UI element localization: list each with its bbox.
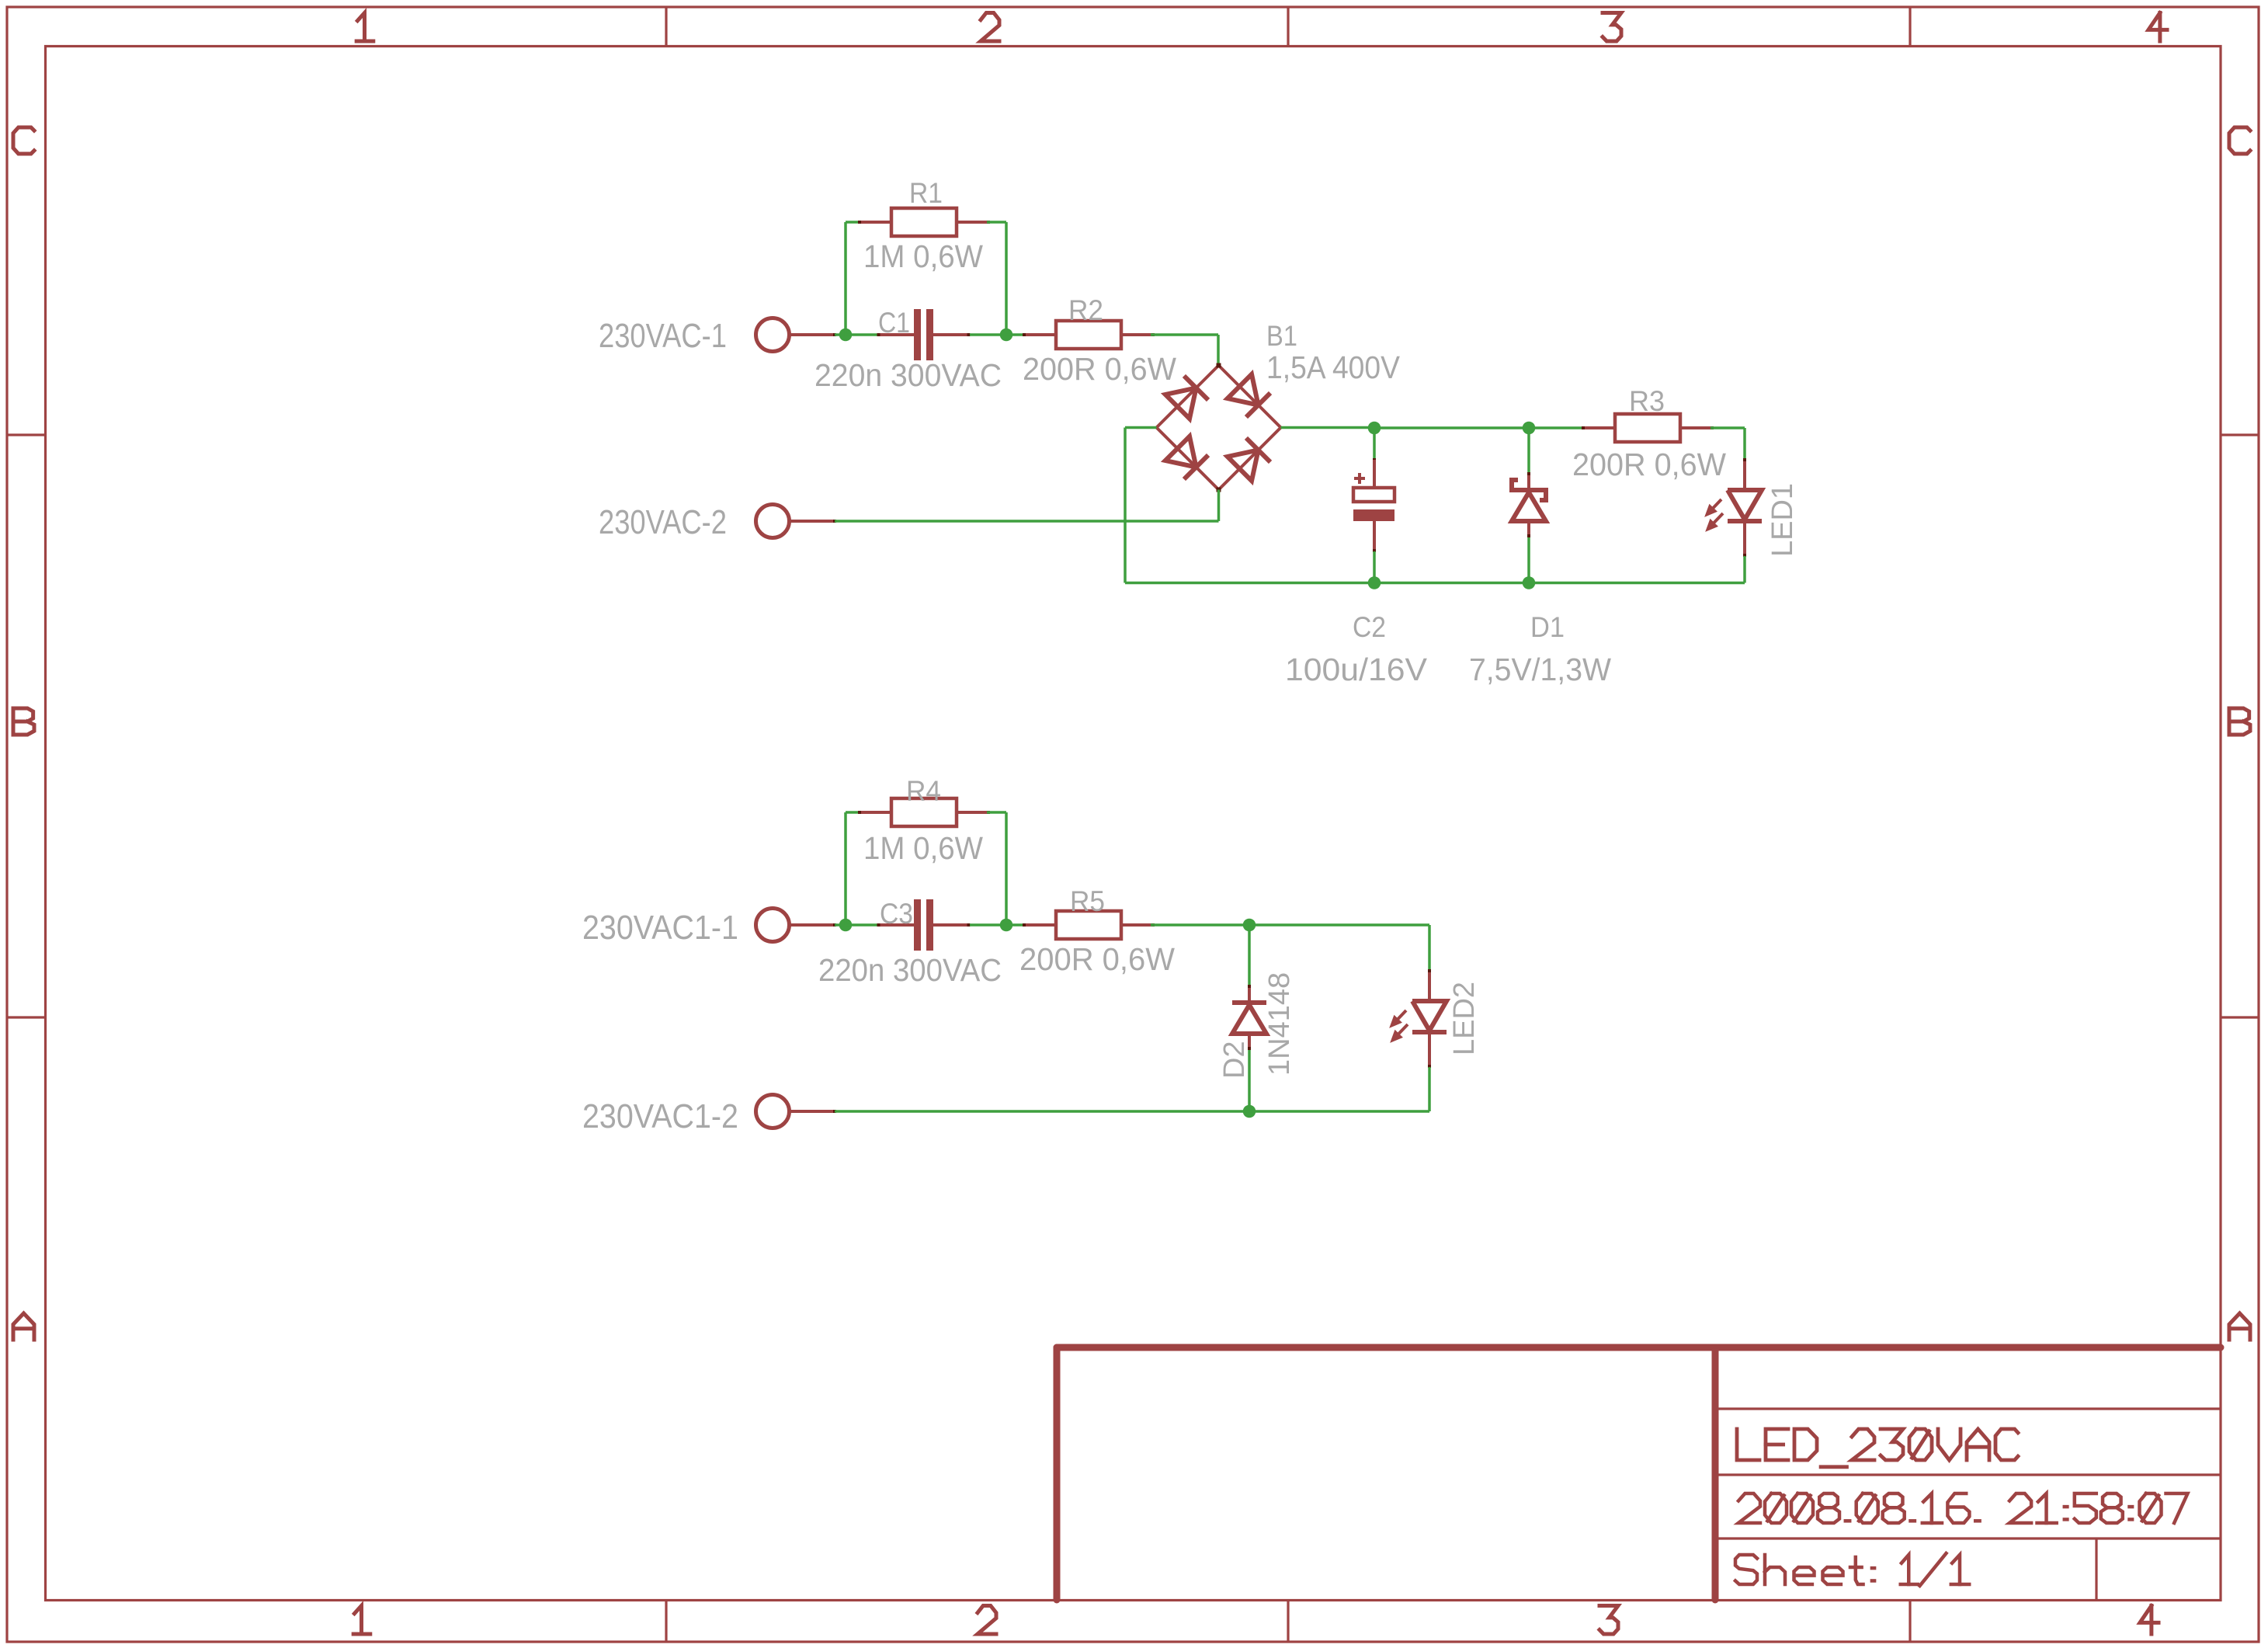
svg-text:200R 0,6W: 200R 0,6W [1019,941,1175,977]
wire up into bridge AC2 [1217,490,1221,522]
svg-text:230VAC-2: 230VAC-2 [599,503,727,541]
wire node G to LED2 corner [1249,923,1429,927]
D1 value label 7,5V/1,3W [1469,652,1611,687]
svg-text:LED1: LED1 [1766,483,1799,557]
svg-text:C2: C2 [1353,611,1386,643]
wire LED1 riser [1743,428,1746,460]
wire R3 to LED1 corner [1711,426,1745,429]
wire node B to R2 [1006,333,1025,336]
title block drawing name LED_230VAC [1737,1429,2018,1467]
resistor R2 [1023,321,1155,349]
svg-text:LED2: LED2 [1448,982,1481,1055]
svg-text:R2: R2 [1068,294,1103,326]
wire bridge plus to node C [1281,426,1375,429]
LED1 name label [1766,483,1799,557]
R4 value label 1M 0,6W [863,830,983,866]
svg-text:1M 0,6W: 1M 0,6W [863,830,983,866]
node B junction [1000,329,1013,342]
node A junction [839,329,853,342]
svg-text:R4: R4 [906,775,941,807]
wire down into bridge AC1 [1217,335,1220,365]
wire C1 to node B [970,333,1006,336]
wire R5 to node G [1151,923,1249,927]
wire left riser down [1124,428,1127,583]
title block sheet number Sheet: 1/1 [1735,1553,1969,1586]
R1 value label 1M 0,6W [863,238,983,274]
connector pad 230VAC1-2 [756,1095,837,1128]
svg-text:230VAC-1: 230VAC-1 [599,317,727,355]
svg-text:200R 0,6W: 200R 0,6W [1023,351,1176,387]
net label 230VAC-2 [599,503,727,541]
wire R4 to right riser [987,811,1006,814]
LED LED2 [1390,969,1447,1068]
svg-text:230VAC1-2: 230VAC1-2 [582,1097,738,1135]
D2 name label [1218,1041,1251,1079]
wire pad1 to node A [835,333,846,336]
wire node C to node D [1374,426,1529,429]
wire bottom rail [1125,582,1745,585]
svg-text:C1: C1 [878,307,910,339]
R3 name label [1629,385,1665,417]
C2 value label 100u/16V [1285,652,1428,687]
capacitor C1 [877,309,971,360]
svg-text:R3: R3 [1629,385,1665,417]
wire node E to C3 [846,923,878,927]
wire bridge minus to left riser [1125,426,1157,429]
node F junction [1000,919,1013,932]
svg-text:200R 0,6W: 200R 0,6W [1572,447,1726,482]
resistor R3 [1582,414,1714,442]
wire bottom rail 3 [1249,1110,1429,1113]
capacitor C3 [877,899,971,951]
net label 230VAC1-2 [582,1097,738,1135]
svg-text:D2: D2 [1218,1041,1251,1079]
net label 230VAC1-1 [582,909,738,947]
wire node F to R5 [1006,923,1025,927]
capacitor C2 electrolytic [1353,429,1394,583]
R2 name label [1068,294,1103,326]
R5 name label [1070,885,1105,917]
R5 value label 200R 0,6W [1019,941,1175,977]
C3 name label [880,898,913,930]
wire node D to R3 [1529,426,1585,429]
resistor R1 [858,208,990,236]
wire R1 to right riser [987,221,1006,224]
net label 230VAC-1 [599,317,727,355]
wire right riser down to node F [1005,812,1008,925]
wire C3 to node F [970,923,1006,927]
R2 value label 200R 0,6W [1023,351,1176,387]
C3 value label 220n 300VAC [818,952,1002,988]
wire node A up to R1 rail [844,222,847,336]
wire 230VAC-2 horizontal [835,520,1219,523]
svg-text:1M 0,6W: 1M 0,6W [863,238,983,274]
C1 value label 220n 300VAC [814,357,1002,393]
LED LED1 [1705,458,1762,557]
connector pad 230VAC-2 [756,505,837,538]
wire LED1 to bottom rail [1743,556,1746,583]
wire pad to node E [835,923,846,927]
B1 value label 1,5A 400V [1266,349,1401,385]
svg-text:D1: D1 [1530,611,1565,643]
node E junction [839,919,853,932]
wire node A to C1 [846,333,878,336]
wire R2 to bridge corner [1151,333,1218,336]
zener diode D1 [1512,429,1546,583]
wire R1 rail left [846,221,860,224]
svg-text:7,5V/1,3W: 7,5V/1,3W [1469,652,1611,687]
R1 name label [909,177,943,209]
svg-text:1,5A 400V: 1,5A 400V [1266,349,1401,385]
title block date 2008.08.16. 21:58:07 [1738,1493,2188,1523]
wire bottom rail 2 [835,1110,1249,1113]
D1 name label [1530,611,1565,643]
resistor R4 [858,798,990,826]
diode D2 [1232,925,1266,1111]
svg-text:B1: B1 [1266,320,1297,352]
wire LED2 to bottom rail [1428,1067,1431,1111]
wire node E up to R4 rail [844,812,847,925]
R3 value label 200R 0,6W [1572,447,1726,482]
node G junction [1243,919,1256,932]
node D1-gnd junction [1523,576,1536,589]
svg-text:C3: C3 [880,898,913,930]
connector pad 230VAC-1 [756,318,837,352]
R4 name label [906,775,941,807]
node C2-gnd junction [1368,576,1381,589]
C1 name label [878,307,910,339]
resistor R5 [1023,911,1155,939]
bridge rectifier B1 [1157,363,1281,492]
connector pad 230VAC1-1 [756,909,837,942]
wire LED2 riser [1428,925,1431,971]
svg-text:100u/16V: 100u/16V [1285,652,1428,687]
wire right riser down to node B [1005,222,1008,335]
title block outline [1057,1347,2221,1600]
svg-text:230VAC1-1: 230VAC1-1 [582,909,738,947]
wire R4 rail left [846,811,860,814]
D2 value label 1N4148 [1263,972,1296,1076]
node D2-bottom junction [1243,1105,1256,1118]
svg-text:R1: R1 [909,177,943,209]
svg-text:1N4148: 1N4148 [1263,972,1296,1076]
node C junction [1368,422,1381,435]
LED2 name label [1448,982,1481,1055]
svg-text:220n 300VAC: 220n 300VAC [818,952,1002,988]
C2 name label [1353,611,1386,643]
node D junction [1523,422,1536,435]
svg-text:220n 300VAC: 220n 300VAC [814,357,1002,393]
svg-text:R5: R5 [1070,885,1105,917]
B1 name label [1266,320,1297,352]
